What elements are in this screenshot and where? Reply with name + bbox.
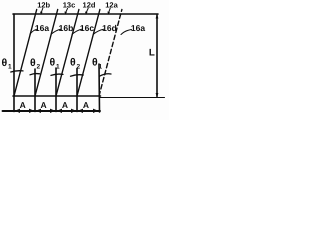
arrowhead 12d bbox=[85, 12, 88, 15]
svg-text:A: A bbox=[41, 100, 47, 110]
leader curve 16d bbox=[93, 29, 104, 34]
svg-text:2: 2 bbox=[37, 64, 41, 71]
A arrows cell2 bbox=[36, 109, 41, 113]
svg-text:12b: 12b bbox=[37, 1, 50, 10]
svg-text:θ: θ bbox=[92, 57, 98, 69]
svg-text:16a: 16a bbox=[35, 23, 49, 33]
svg-text:L: L bbox=[149, 47, 155, 58]
leader curve 16c bbox=[72, 29, 82, 34]
svg-text:A: A bbox=[20, 100, 26, 110]
svg-text:12a: 12a bbox=[105, 1, 118, 10]
dashed slant line 16a bbox=[99, 10, 122, 97]
svg-text:16c: 16c bbox=[80, 23, 94, 33]
arrowhead 12b bbox=[40, 12, 43, 15]
slant line 16d bbox=[77, 10, 100, 97]
slant line 16a bbox=[14, 10, 37, 97]
divider at x=56 bbox=[55, 68, 57, 112]
svg-text:θ: θ bbox=[50, 57, 56, 69]
slant line 16b bbox=[35, 10, 58, 97]
left edge line bbox=[13, 14, 15, 112]
leader line 12d bbox=[86, 8, 88, 12]
slant line 16c bbox=[56, 10, 79, 97]
angle arc theta1 cell1 bbox=[11, 71, 23, 72]
svg-text:A: A bbox=[83, 100, 89, 110]
divider at x=35 bbox=[34, 69, 36, 112]
svg-text:2: 2 bbox=[77, 64, 81, 71]
extension line for L dimension bbox=[100, 97, 165, 99]
A arrows cell4 bbox=[78, 109, 83, 113]
arrowhead 13c bbox=[64, 12, 67, 15]
svg-text:1: 1 bbox=[56, 64, 60, 71]
divider at x=77 bbox=[76, 69, 78, 112]
leader curve 16a dashed line bbox=[121, 30, 132, 35]
angle arc theta2 cell2 bbox=[30, 74, 40, 75]
svg-text:16d: 16d bbox=[102, 23, 117, 33]
leader line 13c bbox=[66, 8, 68, 12]
arrowhead L bottom bbox=[156, 93, 159, 98]
svg-text:12d: 12d bbox=[83, 1, 96, 10]
svg-text:θ: θ bbox=[30, 57, 36, 69]
divider at x=99 bbox=[98, 64, 101, 112]
leader line 12b bbox=[41, 8, 43, 12]
angle arc theta2 cell4 bbox=[71, 75, 84, 77]
svg-text:A: A bbox=[62, 100, 68, 110]
svg-text:16b: 16b bbox=[59, 23, 74, 33]
angle arc theta1 cell3 bbox=[51, 74, 63, 75]
leader curve 16a bbox=[30, 29, 37, 34]
L dimension vertical line bbox=[156, 15, 158, 97]
svg-text:θ: θ bbox=[70, 57, 76, 69]
leader curve 16b bbox=[51, 29, 61, 34]
top edge line bbox=[13, 13, 158, 15]
svg-text:θ: θ bbox=[2, 57, 8, 69]
baseline top of A row bbox=[13, 95, 101, 97]
svg-text:1: 1 bbox=[99, 64, 103, 71]
arrowhead 12a bbox=[107, 12, 110, 15]
A arrows cell1 bbox=[15, 109, 20, 113]
svg-text:1: 1 bbox=[8, 64, 12, 71]
A dimension line bbox=[3, 110, 101, 112]
leader line 12a bbox=[109, 8, 111, 12]
svg-text:13c: 13c bbox=[63, 1, 76, 10]
arrowhead L top bbox=[156, 14, 159, 19]
svg-text:16a: 16a bbox=[131, 23, 145, 33]
angle arc theta1 cell5 bbox=[100, 74, 112, 76]
A arrows cell3 bbox=[57, 109, 62, 113]
